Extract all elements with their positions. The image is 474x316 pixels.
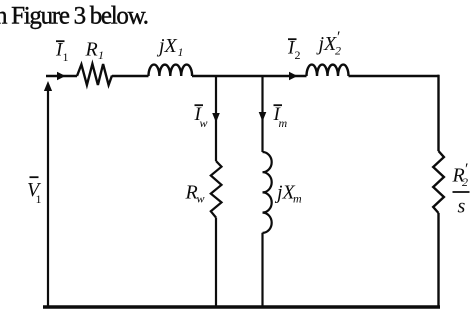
svg-text:2: 2	[335, 44, 341, 58]
label I2	[287, 38, 301, 63]
wire branch jXm	[261, 76, 263, 152]
label R1	[85, 39, 105, 63]
label jXm	[274, 182, 302, 206]
svg-text:2: 2	[295, 48, 301, 62]
wire below jXm	[261, 233, 263, 306]
wire below R2'/s	[437, 213, 439, 308]
wire below Rw	[215, 218, 217, 307]
inductor jX2'	[307, 65, 349, 76]
svg-text:jX: jX	[156, 35, 178, 57]
wire top	[46, 75, 439, 77]
label Iw	[194, 104, 208, 130]
svg-text:1: 1	[36, 192, 42, 206]
svg-text:n Figure 3 below.: n Figure 3 below.	[0, 3, 148, 30]
current arrow I2	[289, 72, 298, 80]
svg-text:s: s	[458, 196, 466, 218]
svg-text:m: m	[293, 192, 302, 206]
svg-text:m: m	[279, 116, 288, 130]
svg-text:w: w	[197, 192, 205, 206]
source arrow V1 (points up to node)	[44, 81, 52, 91]
svg-text:w: w	[200, 116, 208, 130]
resistor R2'/s	[433, 151, 444, 213]
label V1	[27, 177, 42, 206]
label jX1	[156, 35, 184, 59]
wire branch Rw	[215, 76, 217, 161]
svg-text:1: 1	[98, 48, 104, 62]
svg-text:1: 1	[63, 50, 69, 64]
svg-text:R: R	[85, 39, 98, 61]
resistor R1	[77, 64, 112, 85]
label Im	[273, 104, 288, 130]
label Rw	[185, 182, 205, 206]
current arrow Im	[259, 112, 267, 122]
label I1	[55, 40, 69, 65]
label R2'/s	[452, 161, 470, 218]
svg-text:jX: jX	[316, 33, 338, 55]
wire right	[437, 75, 439, 151]
label jX2'	[316, 29, 342, 58]
svg-text:1: 1	[178, 45, 184, 59]
wire left	[47, 90, 49, 306]
current arrow I1	[57, 72, 66, 80]
current arrow Iw	[212, 113, 220, 123]
svg-text:2: 2	[462, 175, 468, 189]
inductor jX1	[149, 65, 193, 76]
inductor jXm	[263, 152, 272, 233]
resistor Rw	[211, 161, 222, 218]
wire bottom	[43, 305, 440, 309]
